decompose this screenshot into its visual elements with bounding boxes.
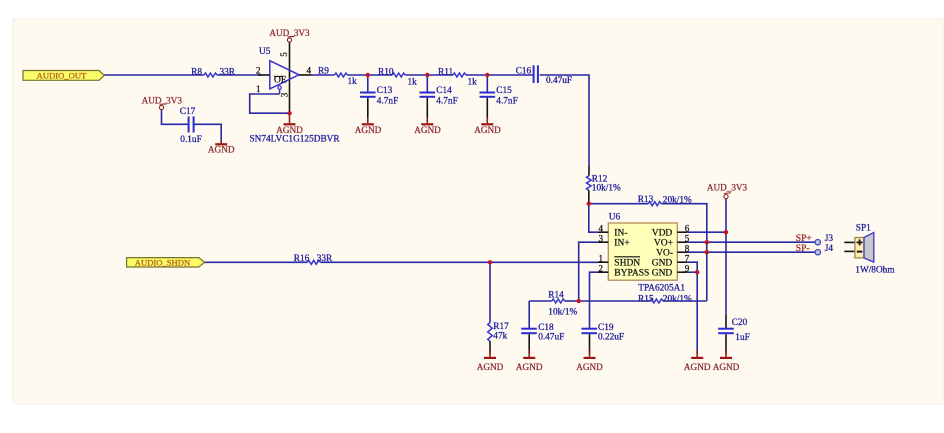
svg-text:10k/1%: 10k/1% xyxy=(548,308,577,318)
svg-text:1W/8Ohm: 1W/8Ohm xyxy=(855,266,895,276)
svg-text:4: 4 xyxy=(599,223,604,233)
power AUD_3V3 (above U5) xyxy=(269,28,310,42)
port AUDIO_SHDN xyxy=(127,257,205,267)
resistor R14 10k/1% xyxy=(529,290,579,317)
wire C16 to R12 (down) xyxy=(540,75,589,166)
pin J3 xyxy=(815,234,833,245)
node junction C15 xyxy=(485,73,489,77)
svg-text:1k: 1k xyxy=(348,77,358,87)
svg-text:33R: 33R xyxy=(220,68,236,78)
svg-text:0.47uF: 0.47uF xyxy=(546,76,572,86)
svg-text:GND: GND xyxy=(652,259,673,269)
svg-text:C19: C19 xyxy=(598,323,614,333)
ground AGND (R17) xyxy=(477,350,504,372)
ground AGND (C19) xyxy=(576,350,603,372)
svg-text:AGND: AGND xyxy=(414,125,441,135)
svg-text:3: 3 xyxy=(599,233,604,243)
svg-text:SN74LVC1G125DBVR: SN74LVC1G125DBVR xyxy=(250,135,341,145)
resistor R17 47k xyxy=(488,262,509,354)
svg-text:R16: R16 xyxy=(294,254,310,264)
wire R13 to VO+ / R15 riser xyxy=(661,204,707,301)
wire GND pin 7 down xyxy=(687,262,697,354)
svg-text:J3: J3 xyxy=(825,234,834,244)
svg-text:AUDIO_SHDN: AUDIO_SHDN xyxy=(135,257,191,267)
capacitor C18 0.47uF xyxy=(521,301,564,354)
resistor R10 1k xyxy=(378,68,417,88)
svg-text:VO-: VO- xyxy=(656,249,673,259)
svg-text:4.7nF: 4.7nF xyxy=(436,96,457,106)
svg-text:AGND: AGND xyxy=(474,125,501,135)
svg-text:4.7nF: 4.7nF xyxy=(377,96,398,106)
resistor R16 33R xyxy=(294,254,333,264)
resistor R15 20k/1% xyxy=(579,295,707,305)
svg-text:R17: R17 xyxy=(493,322,509,332)
ground AGND (U6 pins 7/9) xyxy=(684,350,711,372)
resistor R9 1k xyxy=(318,67,357,88)
svg-text:C17: C17 xyxy=(180,107,196,117)
node junction GND pin9 xyxy=(695,270,699,274)
svg-text:20k/1%: 20k/1% xyxy=(663,295,692,305)
svg-text:J4: J4 xyxy=(825,244,834,254)
ground AGND (C18) xyxy=(516,350,543,372)
svg-text:C18: C18 xyxy=(538,323,554,333)
svg-text:R11: R11 xyxy=(438,68,454,78)
svg-text:AGND: AGND xyxy=(516,362,543,372)
wire VO+ pin 5 to J3 xyxy=(687,241,817,243)
wire VDD pin 6 xyxy=(687,231,726,233)
svg-text:AUDIO_OUT: AUDIO_OUT xyxy=(37,71,87,81)
op-amp U5 buffer xyxy=(256,47,312,97)
svg-text:1k: 1k xyxy=(408,77,418,87)
svg-text:AGND: AGND xyxy=(276,125,303,135)
svg-text:SP-: SP- xyxy=(796,244,810,254)
svg-text:AGND: AGND xyxy=(208,145,235,155)
capacitor C13 4.7nF xyxy=(360,75,398,118)
op-amp U6 TPA6205A1 xyxy=(598,213,690,281)
wire U5 out to R9 xyxy=(312,74,335,76)
ground AGND (C17) xyxy=(208,141,235,155)
wire R11 to node C15 xyxy=(466,74,487,76)
wire VO- pin 8 to J4 xyxy=(687,251,817,253)
wire R10 to node C14 xyxy=(405,74,427,76)
ground AGND (C15) xyxy=(474,118,501,136)
wire R8 to U5 pin 2 xyxy=(217,74,262,76)
port AUDIO_OUT xyxy=(23,71,104,81)
svg-text:AUD_3V3: AUD_3V3 xyxy=(707,183,748,193)
node junction IN- xyxy=(587,202,591,206)
resistor R12 10k/1% xyxy=(587,174,621,193)
wire R12 to IN- node xyxy=(588,190,590,203)
power AUD_3V3 (C17) xyxy=(142,95,183,109)
wire IN- node down to pin 4 xyxy=(589,204,598,233)
wire U5 pin1 loop to ground xyxy=(250,94,290,113)
capacitor C17 0.1uF xyxy=(180,107,202,145)
wire GND pin 9 xyxy=(687,271,697,273)
wire U6 pin 2 to C19 xyxy=(590,272,599,328)
svg-text:SHDN: SHDN xyxy=(614,259,640,269)
svg-text:4.7nF: 4.7nF xyxy=(496,96,517,106)
svg-text:0.22uF: 0.22uF xyxy=(598,333,624,343)
svg-text:10k/1%: 10k/1% xyxy=(592,183,621,193)
wire AUD_3V3 down through VDD to C20 xyxy=(725,199,727,315)
svg-text:2: 2 xyxy=(599,263,604,273)
node junction R17/SHDN xyxy=(488,260,492,264)
wire AUD_3V3 to U5 pin 5 / pin 3 to AGND xyxy=(289,42,291,113)
svg-text:AGND: AGND xyxy=(713,362,740,372)
svg-text:U6: U6 xyxy=(609,213,621,223)
svg-text:R14: R14 xyxy=(548,290,564,300)
svg-text:C13: C13 xyxy=(377,86,393,96)
node junction R15/VO- xyxy=(705,250,709,254)
svg-text:C15: C15 xyxy=(496,86,512,96)
svg-text:AGND: AGND xyxy=(355,125,382,135)
node junction U5 gnd xyxy=(287,111,291,115)
wire U6 pin 3 down to R14 node xyxy=(579,242,598,301)
wire AUDIO_OUT to R8 xyxy=(104,74,204,76)
svg-text:47k: 47k xyxy=(493,332,507,342)
wire node to R11 xyxy=(427,74,453,76)
svg-text:4: 4 xyxy=(307,66,312,76)
svg-text:C20: C20 xyxy=(732,318,748,328)
wire R9 to node C13 xyxy=(348,74,368,76)
svg-text:IN+: IN+ xyxy=(614,239,629,249)
ground AGND (U5) xyxy=(276,113,303,135)
resistor R11 1k xyxy=(438,68,477,88)
svg-text:5: 5 xyxy=(279,52,289,57)
svg-text:1: 1 xyxy=(599,253,604,263)
wire AUDIO_SHDN to R16 xyxy=(205,261,308,263)
capacitor C19 0.22uF xyxy=(582,323,625,354)
svg-text:BYPASS: BYPASS xyxy=(614,269,649,279)
svg-text:U5: U5 xyxy=(259,47,271,57)
svg-text:AGND: AGND xyxy=(684,362,711,372)
power AUD_3V3 (U6/C20) xyxy=(707,183,748,199)
svg-text:0.47uF: 0.47uF xyxy=(538,333,564,343)
wire C17 to AGND xyxy=(194,124,221,140)
svg-text:C14: C14 xyxy=(436,86,452,96)
wire node C15 to C16 xyxy=(487,74,532,76)
svg-text:VO+: VO+ xyxy=(654,239,673,249)
svg-text:AGND: AGND xyxy=(477,362,504,372)
svg-text:1: 1 xyxy=(256,84,261,94)
node junction R14/R15 xyxy=(577,299,581,303)
svg-text:C16: C16 xyxy=(516,66,532,76)
node junction R13/VO+ xyxy=(705,240,709,244)
capacitor C15 4.7nF xyxy=(480,75,518,118)
capacitor C20 1uF xyxy=(718,318,750,354)
svg-text:AGND: AGND xyxy=(576,362,603,372)
svg-text:2: 2 xyxy=(256,66,261,76)
speaker SP1 xyxy=(844,223,895,275)
ground AGND (C14) xyxy=(414,118,441,136)
capacitor C16 0.47uF xyxy=(516,65,572,86)
svg-text:IN-: IN- xyxy=(614,229,627,239)
svg-text:R15: R15 xyxy=(638,295,654,305)
svg-text:SP1: SP1 xyxy=(856,223,871,233)
node junction C13 xyxy=(366,73,370,77)
svg-text:R10: R10 xyxy=(378,68,394,78)
svg-text:GND: GND xyxy=(652,269,673,279)
svg-text:TPA6205A1: TPA6205A1 xyxy=(638,283,685,293)
capacitor C14 4.7nF xyxy=(420,75,458,118)
node junction C14 xyxy=(425,73,429,77)
svg-text:1k: 1k xyxy=(468,77,478,87)
ground AGND (C20) xyxy=(713,350,740,372)
wire node to R10 xyxy=(368,74,393,76)
svg-text:3: 3 xyxy=(280,92,290,97)
wire AUD_3V3 to C17 xyxy=(162,110,188,124)
resistor R13 20k/1% xyxy=(589,195,692,206)
svg-text:R8: R8 xyxy=(191,68,202,78)
svg-text:SP+: SP+ xyxy=(796,234,812,244)
node junction VDD xyxy=(724,230,728,234)
svg-text:R13: R13 xyxy=(638,195,654,205)
svg-text:VDD: VDD xyxy=(652,229,673,239)
resistor R8 33R xyxy=(191,68,236,78)
svg-text:1uF: 1uF xyxy=(735,333,749,343)
ground AGND (C13) xyxy=(355,118,382,136)
wire R16 to U6 pin 1 xyxy=(320,261,598,263)
pin J4 xyxy=(815,244,833,255)
svg-text:0.1uF: 0.1uF xyxy=(180,135,201,145)
